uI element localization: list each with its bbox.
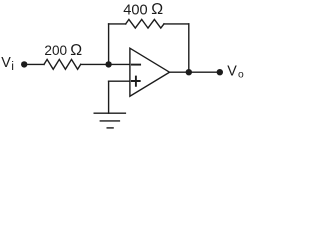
wire op-amp output bbox=[170, 71, 220, 73]
svg-text:i: i bbox=[11, 59, 14, 73]
svg-text:o: o bbox=[238, 69, 244, 80]
resistor R1 200 ohm zigzag bbox=[44, 59, 81, 69]
node B feedback junction on output bbox=[186, 69, 192, 75]
ground bar 1 bbox=[94, 112, 125, 114]
ground bar 2 bbox=[100, 120, 119, 122]
svg-text:Ω: Ω bbox=[70, 42, 82, 59]
op-amp U1 triangle bbox=[130, 48, 170, 96]
op-amp minus sign bbox=[132, 64, 140, 66]
op-amp plus sign bbox=[132, 77, 140, 86]
svg-text:400: 400 bbox=[123, 2, 147, 18]
wire non-inverting input horizontal bbox=[109, 80, 130, 82]
svg-text:V: V bbox=[227, 64, 237, 80]
ground bar 3 bbox=[107, 127, 113, 129]
node Vi input terminal bbox=[21, 61, 27, 67]
node Vo output terminal bbox=[217, 69, 223, 75]
wire feedback top left segment bbox=[109, 23, 126, 25]
node A inverting input junction bbox=[105, 61, 111, 67]
wire non-inverting input down to ground bbox=[108, 81, 110, 113]
svg-text:200: 200 bbox=[44, 43, 67, 58]
wire feedback top right segment bbox=[164, 23, 189, 25]
resistor R2 400 ohm zigzag bbox=[126, 19, 164, 28]
svg-text:Ω: Ω bbox=[151, 1, 163, 18]
svg-text:V: V bbox=[1, 55, 11, 71]
wire input terminal to R1 bbox=[24, 63, 44, 65]
wire feedback left vertical bbox=[108, 24, 110, 65]
wire R1 to op-amp inverting input bbox=[81, 63, 130, 65]
wire feedback right vertical bbox=[188, 24, 190, 72]
